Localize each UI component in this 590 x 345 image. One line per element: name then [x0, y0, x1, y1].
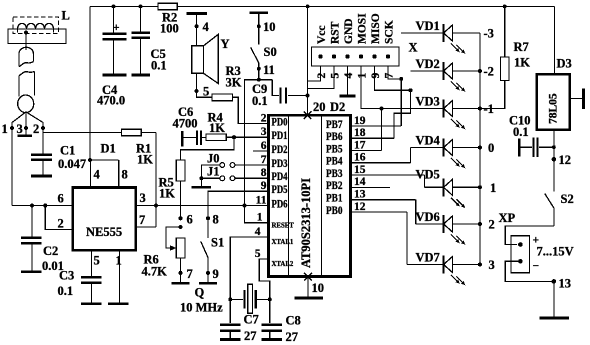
node 2 [33, 122, 45, 136]
connector XP (power plug) [511, 236, 530, 273]
svg-text:18: 18 [354, 127, 366, 139]
svg-text:C2: C2 [43, 244, 58, 258]
svg-text:D2: D2 [330, 100, 345, 114]
wire: Vcc riser to MCU pin 20 [306, 5, 310, 116]
switch S0 [251, 14, 261, 80]
svg-text:13: 13 [559, 277, 572, 291]
wire: R4 node down to R5 [181, 137, 235, 160]
label C1 value [58, 144, 86, 172]
svg-text:13: 13 [354, 189, 366, 201]
pin 20 cross mark [304, 100, 326, 119]
pin 18 PB6 [326, 127, 394, 143]
svg-text:2: 2 [58, 217, 64, 231]
LED VD1 [401, 19, 480, 54]
svg-text:4: 4 [203, 20, 210, 34]
node: C5 on rail [139, 5, 143, 9]
voltage regulator D3 78L05 [537, 74, 570, 130]
ground bar below C2 [21, 270, 42, 273]
capacitor C6 [184, 130, 207, 144]
svg-text:X: X [409, 41, 418, 55]
capacitor C2 [21, 206, 42, 271]
wire: NE555 pin3 output net to MCU PD6 [136, 191, 269, 206]
svg-text:6: 6 [187, 213, 193, 227]
svg-text:1: 1 [2, 122, 8, 136]
svg-text:19: 19 [354, 115, 366, 127]
label C3 value [58, 269, 75, 299]
svg-text:9: 9 [261, 180, 267, 192]
svg-text:5: 5 [94, 254, 100, 268]
svg-text:10: 10 [263, 20, 276, 34]
wire: rail drop at left down to NE555 pins 4/8 [89, 6, 91, 160]
wire: Vcc pin to riser [308, 66, 321, 81]
svg-text:7: 7 [139, 213, 145, 227]
svg-text:RST: RST [330, 21, 342, 44]
label C8 value [286, 314, 301, 345]
label C5 value [151, 47, 167, 73]
svg-text:2: 2 [489, 218, 495, 232]
wire: GND pin to ground [347, 66, 349, 95]
svg-text:PB0: PB0 [326, 205, 343, 217]
svg-text:C8: C8 [286, 314, 301, 328]
svg-text:1K: 1K [209, 121, 225, 135]
connector X (ISP header) [312, 47, 400, 66]
svg-text:4: 4 [255, 226, 261, 238]
svg-text:0.1: 0.1 [513, 125, 529, 139]
svg-text:C3: C3 [59, 269, 74, 283]
svg-text:−: − [533, 261, 540, 273]
ground tab of regulator [570, 89, 584, 110]
svg-text:Y: Y [221, 37, 230, 51]
resistor R3 [212, 64, 242, 101]
wire: rail to regulator input [553, 6, 555, 74]
svg-text:0.1: 0.1 [151, 59, 167, 73]
wire: RST pin elbow [308, 66, 334, 89]
capacitor C9 [272, 80, 307, 104]
pin 7 PD3 [261, 154, 288, 170]
wire: PB1 down to VD6 [415, 200, 417, 224]
ground bar below GND pin [340, 95, 356, 98]
svg-text:5: 5 [255, 248, 261, 260]
wire: LED anode bus [479, 33, 481, 265]
svg-text:S1: S1 [211, 236, 224, 250]
LED VD4 [410, 134, 480, 169]
label R6 value [142, 253, 168, 279]
switch S2 [545, 194, 554, 227]
ground bar below jumpers [191, 186, 211, 189]
label C2 value [42, 244, 64, 273]
svg-text:3: 3 [140, 191, 146, 205]
op-amp timer U1 NE555 [73, 188, 136, 251]
ground bar below C3 [81, 302, 102, 305]
node: pin2 tie junction [43, 204, 47, 208]
pin 17 PB5 [326, 139, 382, 155]
inductor L (sensor coil, dashed screen box) [13, 17, 59, 34]
power tap bar above S0 [250, 11, 269, 14]
svg-text:NE555: NE555 [86, 225, 122, 239]
svg-text:14: 14 [354, 176, 366, 188]
svg-text:1K: 1K [514, 56, 530, 70]
svg-text:2: 2 [316, 73, 328, 79]
svg-text:2: 2 [261, 112, 267, 124]
ground (screen of coil, under terminal 3) [18, 128, 33, 136]
ground bar below C7 [220, 338, 240, 341]
capacitor C8 [262, 325, 282, 339]
svg-text:PD2: PD2 [272, 144, 288, 156]
wire: +5V top rail [90, 5, 554, 7]
node 12 [552, 153, 571, 167]
svg-text:MISO: MISO [370, 13, 382, 44]
pin 6 PD2 [261, 140, 288, 156]
pin 1 RESET [257, 212, 295, 230]
node: C9 to Vcc riser [306, 94, 310, 98]
node on anode bus [478, 146, 482, 150]
pin 4 XTAL1 [255, 226, 294, 246]
svg-text:PB2: PB2 [326, 180, 343, 192]
power tap bar above speaker [186, 12, 207, 15]
svg-text:0.1: 0.1 [58, 284, 74, 298]
label R1 value [136, 142, 153, 167]
label C10 value [509, 114, 531, 140]
wire: SCK to PB7 and VD1 [388, 66, 403, 126]
wire: regulator output down to S2 [553, 130, 555, 192]
svg-text:12: 12 [354, 201, 366, 213]
svg-text:7: 7 [187, 267, 193, 281]
ground bar below MCU pin 10 [295, 297, 323, 300]
svg-text:VD2: VD2 [416, 57, 440, 71]
svg-text:C1: C1 [60, 144, 75, 158]
svg-text:RESET: RESET [272, 223, 295, 230]
wire: R3 to MCU PD0 [233, 97, 269, 123]
svg-text:-3: -3 [484, 27, 494, 41]
svg-text:PD6: PD6 [272, 198, 288, 210]
svg-text:6: 6 [58, 192, 64, 206]
label C9 value [252, 82, 268, 108]
svg-text:-2: -2 [484, 65, 494, 79]
svg-text:15: 15 [354, 164, 366, 176]
svg-text:12: 12 [559, 153, 572, 167]
svg-text:VD6: VD6 [416, 210, 440, 224]
pin 19 PB7 [326, 115, 401, 131]
wire: MCU XTAL2 to crystal [259, 259, 270, 323]
switch S1 [201, 216, 210, 282]
svg-text:MOSI: MOSI [357, 13, 369, 44]
svg-text:PB5: PB5 [326, 143, 343, 155]
wire: S0 node to reset column and C9 [243, 78, 273, 223]
jumper J0 [220, 163, 269, 168]
wire: terminal 2 to R1 [43, 128, 122, 154]
resistor R1 [122, 129, 157, 136]
node: R7 on rail [503, 5, 507, 9]
node 1 [2, 122, 14, 136]
wire: tap to speaker [196, 15, 198, 46]
crystal Q [228, 284, 271, 313]
ground bar below S1 [199, 282, 217, 285]
svg-text:3: 3 [489, 258, 495, 272]
svg-text:20: 20 [313, 100, 326, 114]
node 13 [552, 277, 571, 291]
svg-text:3K: 3K [226, 76, 242, 90]
LED VD2 [411, 57, 480, 92]
svg-text:10: 10 [312, 281, 325, 295]
svg-text:9: 9 [370, 73, 382, 79]
potentiometer R6 [166, 216, 185, 282]
wire: NE555 pin6 net to coil terminal 1 [12, 192, 73, 206]
resistor R7 [480, 6, 530, 108]
svg-text:VD4: VD4 [416, 134, 441, 148]
svg-text:J0: J0 [207, 152, 220, 166]
svg-text:470.0: 470.0 [97, 94, 125, 108]
wire: node 13 to ground [553, 281, 555, 316]
svg-text:0.047: 0.047 [58, 157, 86, 171]
node on anode bus [478, 69, 482, 73]
label Q 10 MHz [180, 286, 223, 315]
svg-text:R7: R7 [514, 40, 529, 54]
svg-text:16: 16 [354, 152, 366, 164]
speaker Y [192, 34, 218, 83]
node 4 [195, 20, 210, 34]
svg-text:78L05: 78L05 [548, 93, 560, 124]
node on anode bus [478, 222, 482, 226]
wire: PB4 up to VD4 [409, 148, 411, 163]
wire: S2 to XP plus pin [505, 226, 554, 245]
wire: PB3 down to VD5 [424, 175, 426, 187]
svg-text:PD4: PD4 [272, 171, 288, 183]
pin 11 PD6 [256, 194, 288, 210]
capacitor C5 [132, 6, 150, 73]
wire: jumper commons to ground [199, 165, 219, 186]
svg-text:0: 0 [488, 141, 494, 155]
svg-text:VD5: VD5 [416, 168, 440, 182]
svg-text:VD7: VD7 [416, 251, 440, 265]
wire: MCU PD5 down to S1 [208, 191, 269, 218]
svg-text:SCK: SCK [384, 20, 396, 44]
pin 5 XTAL2 [255, 248, 294, 268]
pin 2 PD0 [261, 112, 288, 128]
svg-text:PB3: PB3 [326, 168, 343, 180]
svg-text:5: 5 [330, 73, 342, 79]
NE555 pin 7 stub [136, 213, 156, 227]
ground bar below NE555 pin1 [108, 302, 129, 305]
svg-text:2: 2 [33, 122, 39, 136]
svg-text:J1: J1 [207, 165, 220, 179]
node on anode bus [478, 185, 482, 189]
svg-text:3: 3 [17, 122, 23, 136]
svg-text:D3: D3 [557, 57, 572, 71]
power tap bar below C5 [132, 74, 150, 77]
svg-text:3: 3 [261, 126, 267, 138]
svg-text:8: 8 [261, 167, 267, 179]
pin 14 PB2 [326, 176, 390, 192]
svg-text:XTAL1: XTAL1 [272, 239, 294, 246]
svg-text:7: 7 [261, 154, 267, 166]
svg-text:PB7: PB7 [326, 119, 343, 131]
wire: PB0 down to VD7 [406, 212, 408, 265]
resistor R5 [159, 160, 185, 218]
pin 13 PB1 [326, 189, 416, 205]
pin 6 stub [253, 150, 269, 152]
jumper J1 [220, 176, 269, 181]
svg-text:S0: S0 [264, 45, 277, 59]
label C4 value [97, 83, 125, 108]
NE555 pin 1 to ground [116, 250, 122, 302]
svg-text:PB4: PB4 [326, 156, 343, 168]
svg-text:L: L [62, 9, 70, 23]
wire: R1 output down to NE555 pin3 net [154, 133, 158, 228]
pin 10 cross mark and ground [304, 273, 324, 297]
svg-text:Q: Q [195, 286, 205, 300]
svg-text:PD1: PD1 [272, 130, 288, 142]
svg-text:1: 1 [257, 212, 263, 224]
ground bar bottom right [540, 317, 570, 320]
svg-text:11: 11 [263, 63, 275, 77]
wire: MISO to PB6 and VD2 [375, 66, 413, 138]
svg-text:+: + [113, 22, 120, 34]
svg-text:8: 8 [213, 213, 219, 227]
shielded cable to coil [18, 33, 35, 113]
svg-text:5: 5 [203, 85, 209, 99]
svg-text:S2: S2 [561, 192, 574, 206]
svg-text:PB6: PB6 [326, 131, 343, 143]
svg-text:17: 17 [354, 139, 366, 151]
capacitor C4 (electrolytic) [103, 6, 127, 73]
svg-text:27: 27 [244, 329, 257, 343]
wire: XP minus to node 13 [505, 261, 554, 281]
resistor R4 [206, 111, 234, 141]
svg-text:VD1: VD1 [416, 19, 440, 33]
svg-text:1: 1 [490, 181, 496, 195]
svg-text:4700: 4700 [173, 117, 198, 131]
node: R4 output / MCU PD1 [232, 135, 269, 139]
svg-text:Vcc: Vcc [316, 25, 328, 44]
svg-text:XTAL2: XTAL2 [272, 261, 294, 268]
node: NE555 pins 4+8 tie [88, 158, 119, 187]
svg-text:PD3: PD3 [272, 158, 288, 170]
svg-text:100: 100 [160, 22, 179, 36]
label C7 value [244, 313, 259, 344]
svg-text:4: 4 [343, 73, 355, 79]
svg-text:0.1: 0.1 [252, 94, 268, 108]
wire: cable fan-out to terminals 1,3,2 [12, 112, 43, 128]
svg-text:27: 27 [286, 330, 299, 344]
label C6 value [173, 105, 198, 131]
svg-text:VD3: VD3 [416, 95, 440, 109]
power tap bar below C4 [103, 74, 127, 77]
wire: NE555 pin2 tie [45, 206, 72, 231]
svg-text:7: 7 [384, 73, 396, 79]
svg-text:C7: C7 [244, 313, 259, 327]
svg-text:AT90S2313-10PI: AT90S2313-10PI [299, 178, 313, 268]
svg-text:PB1: PB1 [326, 193, 343, 205]
svg-text:PD0: PD0 [272, 116, 288, 128]
capacitor C3 [81, 277, 102, 302]
svg-text:4.7K: 4.7K [142, 265, 168, 279]
svg-text:D1: D1 [101, 142, 116, 156]
pin 15 PB3 [326, 164, 425, 180]
svg-text:7...15V: 7...15V [537, 245, 574, 259]
capacitor C7 [220, 325, 240, 339]
svg-text:11: 11 [256, 194, 267, 206]
node on anode bus [478, 107, 482, 111]
node: C2 junction [30, 204, 34, 208]
pin 12 PB0 [326, 201, 407, 217]
resistor R2 [158, 3, 179, 35]
capacitor C1 [31, 155, 52, 175]
wire: speaker to R3, node 5 [195, 73, 212, 98]
capacitor C10 [519, 138, 556, 158]
LED VD6 [416, 210, 480, 245]
coil shield (solid box) [8, 29, 66, 44]
svg-text:9: 9 [213, 267, 219, 281]
svg-text:GND: GND [343, 18, 355, 44]
ground bar below C8 [262, 338, 282, 341]
node on anode bus [478, 263, 482, 267]
svg-text:PD5: PD5 [272, 184, 288, 196]
wire: MOSI to PB5 and VD3 [361, 66, 384, 151]
svg-text:XP: XP [499, 211, 516, 225]
node: C4 on rail [112, 5, 116, 9]
svg-text:4: 4 [94, 168, 101, 182]
NE555 pin 5 with C3 [92, 250, 100, 276]
svg-text:10 MHz: 10 MHz [180, 301, 223, 315]
svg-text:1K: 1K [137, 153, 153, 167]
LED VD7 [407, 251, 480, 286]
power tap bar below C1 [31, 175, 52, 178]
pin 3 PD1 [261, 126, 288, 142]
svg-text:1: 1 [357, 73, 369, 79]
svg-text:6: 6 [261, 140, 267, 152]
LED VD3 [382, 95, 480, 130]
node: coil centre tap [24, 31, 28, 50]
node 3 [17, 122, 28, 136]
microcontroller D2 AT90S2313-10PI [269, 115, 351, 276]
pin 16 PB4 [326, 152, 410, 168]
svg-text:1: 1 [116, 254, 122, 268]
wire: MCU XTAL1 to crystal [230, 237, 268, 323]
svg-text:8: 8 [122, 168, 128, 182]
LED VD5 [416, 168, 480, 209]
pin 8 PD4 [261, 167, 288, 183]
power tap bar left of C6 [181, 131, 184, 147]
pin 9 PD5 [261, 180, 288, 196]
wire: terminal 1 down to NE555 pin6 net [11, 128, 13, 206]
ground bar below R6 [172, 282, 190, 285]
svg-text:1K: 1K [159, 187, 175, 201]
